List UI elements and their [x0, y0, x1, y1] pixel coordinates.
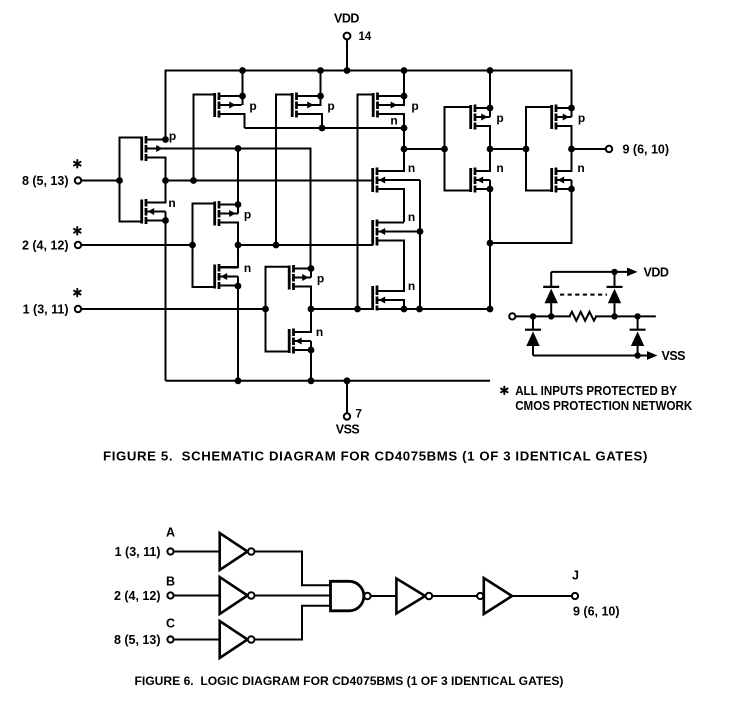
wire N8 source to N7 source column	[490, 189, 572, 243]
svg-text:p: p	[578, 111, 585, 125]
svg-text:p: p	[496, 111, 503, 125]
junction P1 source	[162, 136, 169, 143]
transistor N4	[373, 168, 404, 193]
input terminal 2	[75, 242, 81, 248]
wire P3 source stub extension	[316, 95, 321, 97]
node C junction (inverter-3 output)	[308, 306, 315, 313]
gate staple inverter-2 (P4/N2)	[193, 204, 215, 288]
wire N7 source down to source row	[489, 189, 491, 309]
inverter A triangle	[220, 533, 248, 570]
wire P2 source to VDD rail	[242, 71, 244, 97]
svg-text:VSS: VSS	[662, 349, 686, 363]
wire P2 drain to NAND p-drain row	[219, 114, 245, 128]
svg-text:p: p	[327, 99, 334, 113]
wire NAND p-drain row	[245, 127, 405, 129]
wire P7 substrate jog	[489, 108, 491, 117]
wire inverter-1 output row to N4 gate	[166, 180, 374, 182]
svg-text:p: p	[317, 272, 324, 286]
VDD terminal pin 14	[344, 31, 372, 43]
wire N8 substrate to source	[571, 180, 573, 189]
wire P2 substrate jog	[242, 96, 244, 105]
wire P7 drain down to node D	[475, 126, 490, 149]
svg-text:n: n	[408, 161, 415, 175]
transistor P8	[552, 105, 572, 130]
node A junction (inverter-1 output)	[162, 177, 169, 184]
svg-text:8 (5, 13): 8 (5, 13)	[114, 633, 161, 647]
wire P6 substrate jog	[310, 269, 312, 278]
junction source row / inverter-4-5 source column	[487, 306, 494, 313]
wire output node to terminal 9	[572, 148, 606, 150]
inverter A bubble	[248, 548, 255, 555]
node D junction (inverter-4 output)	[487, 146, 494, 153]
svg-text:p: p	[169, 129, 176, 143]
junction P3 source	[317, 93, 324, 100]
junction input line / D1	[548, 313, 554, 319]
svg-text:C: C	[166, 617, 175, 631]
wire P4 drain down to node B	[219, 223, 238, 246]
VDD rail	[166, 71, 572, 140]
junction P7 source	[487, 105, 494, 112]
svg-text:9 (6, 10): 9 (6, 10)	[623, 143, 670, 157]
svg-text:FIGURE 6. LOGIC DIAGRAM FOR C: FIGURE 6. LOGIC DIAGRAM FOR CD4075BMS (1…	[135, 674, 564, 688]
svg-text:n: n	[244, 261, 251, 275]
wire protection input line	[515, 315, 570, 317]
wire inverter D to buffer E	[432, 595, 477, 597]
junction input line / D2	[611, 313, 617, 319]
wire P7 source to VDD rail	[489, 71, 491, 109]
svg-text:p: p	[244, 208, 251, 222]
transistor N6	[373, 286, 400, 311]
resistor R (protection)	[570, 312, 597, 321]
junction N7 source	[487, 186, 494, 193]
inverter B triangle	[220, 577, 248, 614]
input terminal 8 fig6	[167, 636, 173, 642]
wire P3 substrate jog	[316, 96, 321, 105]
wire N6 substrate to source row	[400, 300, 404, 309]
junction N6 source	[401, 306, 408, 313]
transistor N7	[471, 168, 490, 193]
svg-text:n: n	[496, 161, 503, 175]
svg-text:A: A	[166, 526, 175, 540]
wire P1 source to VDD rail	[146, 139, 166, 141]
buffer E triangle	[484, 578, 512, 614]
node B junction (inverter-2 output)	[235, 242, 242, 249]
diode D1	[543, 272, 559, 317]
svg-text:n: n	[577, 161, 584, 175]
wire N5 source to N6 drain	[377, 241, 404, 292]
wire P8 substrate jog	[571, 108, 573, 117]
gate staple inverter-4 (P7/N7)	[445, 107, 471, 191]
wire P5 substrate jog	[400, 96, 405, 105]
inverter D bubble	[426, 593, 433, 600]
wire NAND to inverter D	[371, 595, 397, 597]
svg-text:7: 7	[356, 409, 362, 421]
transistor N2	[215, 264, 238, 289]
wire N7 drain up to node D	[475, 149, 490, 171]
wire substrate trunk	[419, 180, 421, 309]
transistor P7	[471, 105, 490, 130]
inverter C bubble	[248, 636, 255, 643]
input terminal 8	[75, 177, 81, 183]
svg-text:2 (4, 12): 2 (4, 12)	[114, 589, 161, 603]
svg-text:CMOS PROTECTION NETWORK: CMOS PROTECTION NETWORK	[515, 398, 693, 413]
svg-text:FIGURE 5. SCHEMATIC DIAGRAM F: FIGURE 5. SCHEMATIC DIAGRAM FOR CD4075BM…	[103, 449, 648, 464]
asterisk input 8	[76, 160, 78, 168]
output terminal 9 fig6	[572, 593, 578, 599]
junction P5 source	[401, 93, 408, 100]
input terminal 2 fig6	[167, 592, 173, 598]
wire N3 substrate to source	[310, 341, 312, 350]
svg-text:2 (4, 12): 2 (4, 12)	[22, 239, 69, 253]
transistor N8	[552, 168, 572, 193]
wire input 2 to gate staple	[81, 244, 192, 246]
diode D4	[630, 316, 646, 355]
junction input 2 / staple	[189, 242, 196, 249]
wire P2 substrate stub extension	[238, 104, 242, 106]
wire N7 substrate to source	[489, 180, 491, 189]
junction N5 substrate / trunk	[417, 228, 424, 235]
svg-text:9 (6, 10): 9 (6, 10)	[573, 605, 620, 619]
wire N5 drain stub	[377, 222, 404, 224]
svg-text:p: p	[411, 99, 418, 113]
wire P1 drain down to node A	[146, 158, 166, 181]
diode D3	[525, 316, 541, 355]
asterisk input 2	[76, 227, 78, 235]
wire inverter C to NAND	[255, 606, 331, 640]
inverter B bubble	[248, 592, 255, 599]
junction NAND p-drain row end / output column	[401, 125, 408, 132]
junction NAND output node	[401, 146, 408, 153]
wire resistor to line end	[595, 315, 656, 317]
svg-text:VSS: VSS	[336, 423, 360, 437]
wire inverter-2 output row to N5 gate	[238, 244, 373, 246]
junction row A / P2 gate staple	[190, 177, 197, 184]
junction trunk / source row	[416, 306, 423, 313]
transistor P4	[215, 201, 238, 226]
inverter C triangle	[220, 621, 248, 658]
svg-text:1 (3, 11): 1 (3, 11)	[115, 545, 161, 559]
wire N3 source to VSS rail	[310, 350, 312, 381]
gate staple P2	[194, 95, 216, 181]
transistor N5	[373, 220, 404, 246]
junction P6 source	[308, 265, 315, 272]
wire inverter-3 output row to N6 gate	[311, 308, 374, 310]
gate staple inverter-1 (P1/N1)	[120, 138, 142, 222]
svg-text:14: 14	[359, 31, 372, 43]
gate staple P3	[276, 95, 292, 246]
wire input A to inverter	[174, 551, 220, 553]
junction VDD rail / P2 drain	[239, 67, 246, 74]
wire P4 source up to substrate line	[237, 149, 239, 205]
svg-text:n: n	[408, 279, 415, 293]
junction NAND output / inverter-4 staple	[441, 146, 448, 153]
input terminal 1	[75, 306, 81, 312]
svg-text:n: n	[408, 210, 415, 224]
junction P8 source	[568, 105, 575, 112]
junction N8 source	[568, 186, 575, 193]
wire inverter A to NAND	[255, 552, 331, 586]
junction input 8 / staple	[116, 177, 123, 184]
arrow to VDD	[627, 268, 638, 277]
transistor P2	[215, 93, 238, 118]
wire N2 drain up to node B	[219, 245, 238, 267]
svg-text:VDD: VDD	[644, 265, 669, 279]
wire input 8 to gate staple	[81, 180, 119, 182]
svg-text:n: n	[316, 325, 323, 339]
wire P8 drain down to node E	[556, 126, 572, 149]
svg-text:VDD: VDD	[334, 11, 359, 25]
arrow to VSS	[647, 351, 658, 360]
protection input terminal	[509, 313, 515, 319]
svg-text:ALL INPUTS PROTECTED BY: ALL INPUTS PROTECTED BY	[515, 383, 677, 398]
wire N8 drain up to node E	[556, 149, 572, 171]
junction VSS rail / N2 source	[235, 377, 242, 384]
transistor N3	[289, 329, 311, 354]
junction VDD line / D2	[611, 269, 617, 275]
VSS rail	[166, 380, 491, 382]
gate staple inverter-5 (P8/N8)	[526, 107, 552, 191]
wire P5 drain to NAND p-drain row	[378, 114, 405, 128]
wire protection VDD line	[551, 271, 628, 273]
wire VSS rail to terminal 7	[346, 381, 348, 413]
wire N4 drain up to NAND output	[377, 149, 404, 171]
junction row C / P5 gate staple	[354, 306, 361, 313]
wire node D to inverter-5 gate	[490, 148, 526, 150]
junction substrate line / P4 column	[235, 145, 242, 152]
diode D2	[607, 272, 623, 317]
gate staple inverter-3 (P6/N3)	[266, 267, 290, 352]
inverter D triangle	[396, 579, 425, 614]
junction P2 source	[239, 93, 246, 100]
transistor P6	[289, 265, 311, 290]
wire N2 source to VSS rail	[237, 286, 239, 381]
junction N2 source	[235, 283, 242, 290]
wire N4 substrate to trunk	[404, 179, 420, 181]
wire N1 source to VSS rail	[165, 221, 167, 381]
wire VDD terminal to rail	[346, 39, 348, 70]
wire N1 drain up to node A	[146, 181, 166, 203]
junction P4 source	[235, 201, 242, 208]
gate staple P5	[358, 95, 374, 310]
svg-text:1 (3, 11): 1 (3, 11)	[23, 303, 69, 317]
svg-text:n: n	[168, 196, 175, 210]
transistor P3	[292, 93, 316, 118]
junction P3 drain / row	[319, 125, 326, 132]
wire P3 source to VDD rail	[320, 71, 322, 97]
wire P3 drain to NAND p-drain row	[297, 114, 323, 128]
svg-text:J: J	[572, 569, 579, 583]
junction VSS line / D4	[634, 352, 640, 358]
junction VDD rail / P7 drain	[487, 67, 494, 74]
transistor P5	[373, 93, 399, 118]
wire input 1 to gate staple	[81, 308, 265, 310]
wire NAND output to inverter-4 gate	[404, 148, 445, 150]
VSS terminal pin 7	[344, 409, 362, 421]
wire N4 source to N5 drain	[377, 189, 404, 222]
buffer E input bubble	[477, 593, 483, 599]
wire N5 substrate to trunk	[404, 231, 420, 233]
junction N1 source	[162, 217, 169, 224]
svg-text:n: n	[390, 114, 397, 128]
input terminal 1 fig6	[167, 548, 173, 554]
asterisk input 1	[76, 289, 78, 297]
junction VDD rail / P3 drain	[317, 67, 324, 74]
wire protection VSS line	[533, 355, 648, 357]
junction row B / P3 gate staple	[273, 242, 280, 249]
wire P4 substrate jog	[237, 205, 239, 214]
junction N3 source	[308, 347, 315, 354]
junction input line / D4	[634, 313, 640, 319]
wire P5 source to VDD rail	[403, 71, 405, 97]
svg-text:B: B	[166, 575, 175, 589]
wire input B to inverter	[174, 595, 220, 597]
junction VDD rail / pin 14	[344, 67, 351, 74]
wire inverter B to NAND	[255, 595, 331, 597]
wire NAND output column	[403, 128, 405, 149]
svg-text:8 (5, 13): 8 (5, 13)	[22, 174, 69, 188]
wire N1 substrate to source	[165, 212, 167, 221]
junction VSS rail / pin 7	[344, 377, 351, 384]
wire N6 source row	[378, 308, 491, 310]
NAND gate body	[331, 581, 364, 611]
NAND output bubble	[364, 593, 371, 600]
wire P5 source stub extension	[400, 95, 405, 97]
wire buffer E to output terminal	[512, 595, 572, 597]
wire N3 drain up to node C	[294, 309, 312, 332]
junction input line / D3	[530, 313, 536, 319]
junction input 1 / staple	[262, 306, 269, 313]
junction VDD rail / P5 drain	[401, 67, 408, 74]
node E junction (output node)	[568, 146, 575, 153]
transistor N1	[142, 199, 166, 224]
junction VSS rail / N3 source	[308, 377, 315, 384]
wire P6 drain down to node C	[294, 287, 312, 310]
wire input C to inverter	[174, 639, 220, 641]
wire P2 source stub extension	[238, 95, 243, 97]
junction N7-N8 source tie	[487, 240, 494, 247]
transistor P1	[142, 136, 165, 161]
wire N2 substrate to source	[237, 277, 239, 287]
junction node D / inverter-5 staple	[523, 146, 530, 153]
wire P1 substrate line to P6	[146, 149, 311, 269]
svg-text:p: p	[249, 99, 256, 113]
dashed gate-oxide link D1-D2	[560, 294, 607, 296]
output terminal 9	[606, 146, 612, 152]
protection note line 1	[501, 383, 677, 398]
